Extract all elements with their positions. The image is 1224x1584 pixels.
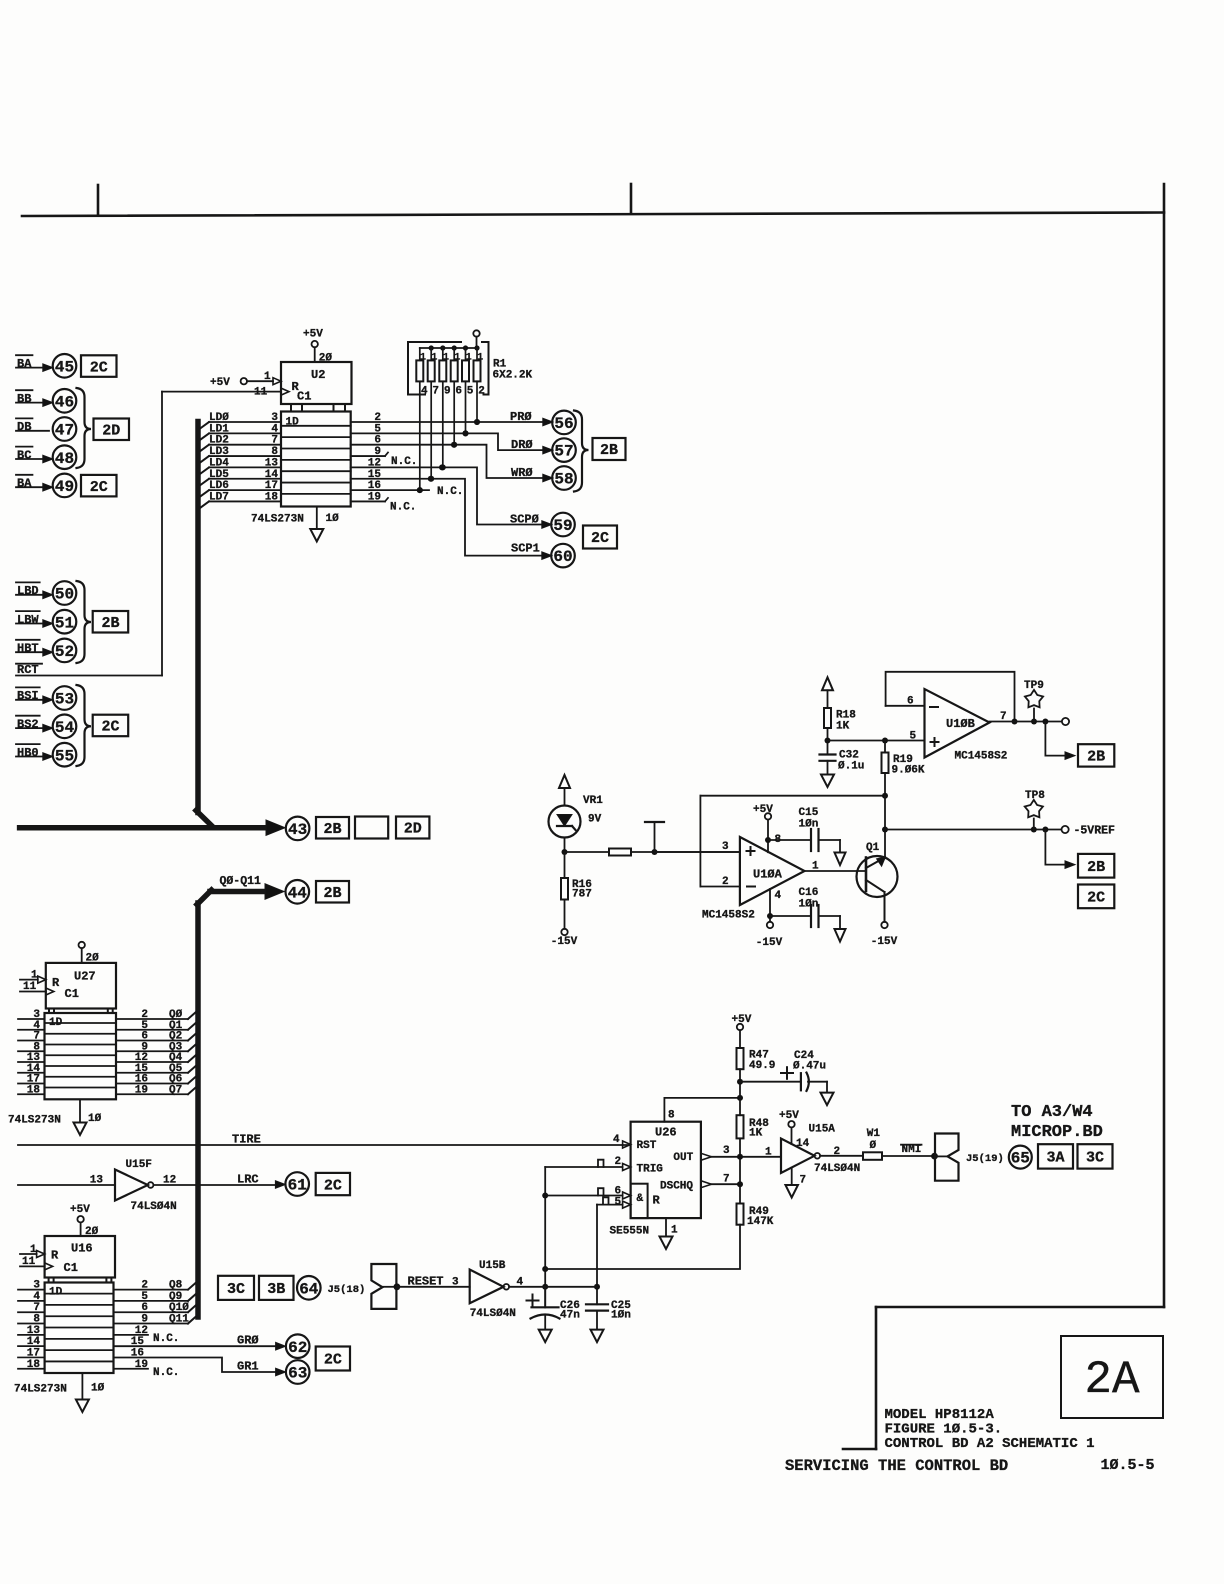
- svg-text:WRØ: WRØ: [511, 466, 533, 480]
- bus horizontal 43: [20, 825, 267, 831]
- svg-text:J5(18): J5(18): [328, 1284, 366, 1296]
- svg-text:16: 16: [131, 1348, 144, 1360]
- wire NMI: [882, 1155, 935, 1157]
- destination box 2B for 56-58: [593, 438, 626, 460]
- R1 bracket right: [482, 342, 489, 395]
- svg-text:Q7: Q7: [169, 1084, 182, 1096]
- U16 pin 1 input: [20, 1253, 37, 1255]
- svg-text:1: 1: [812, 861, 819, 873]
- svg-text:+5V: +5V: [210, 377, 230, 389]
- terminal 54: [53, 715, 77, 739]
- svg-text:17: 17: [27, 1347, 40, 1359]
- node BA input 49: [16, 474, 32, 476]
- capacitor C16 10n: [767, 913, 773, 919]
- wire LRC: [153, 1184, 275, 1186]
- svg-text:7: 7: [271, 435, 278, 447]
- svg-text:NMI: NMI: [902, 1144, 922, 1156]
- terminal 53: [53, 686, 77, 710]
- terminal 60: [551, 544, 575, 568]
- svg-text:OUT: OUT: [673, 1152, 693, 1164]
- svg-text:Ø: Ø: [870, 1140, 877, 1152]
- svg-text:RST: RST: [637, 1140, 657, 1152]
- svg-text:18: 18: [265, 491, 279, 503]
- svg-text:58: 58: [554, 471, 573, 489]
- node T junction: [652, 849, 658, 855]
- bus vertical lower: [195, 903, 201, 1317]
- U26 pin4 wedge: [623, 1141, 631, 1148]
- svg-text:2B: 2B: [323, 885, 341, 902]
- svg-text:SERVICING THE CONTROL BD: SERVICING THE CONTROL BD: [785, 1457, 1008, 1475]
- svg-text:Ø.47u: Ø.47u: [793, 1061, 826, 1073]
- svg-text:Q1: Q1: [866, 842, 880, 854]
- svg-text:13: 13: [27, 1325, 41, 1337]
- R1 leg pin 6: [453, 381, 455, 444]
- destination box 3C: [1078, 1144, 1113, 1168]
- svg-text:17: 17: [265, 480, 278, 492]
- svg-text:1Ø: 1Ø: [91, 1383, 105, 1395]
- supply arrow VR1: [559, 775, 570, 788]
- border top rule: [22, 213, 1164, 217]
- resistor R16 787: [564, 852, 566, 878]
- svg-text:5: 5: [467, 386, 474, 398]
- terminal 44: [286, 880, 310, 904]
- node BSI input 53: [16, 686, 40, 688]
- node RCT: [16, 663, 42, 665]
- inverter U15F: [115, 1170, 148, 1201]
- svg-text:49.9: 49.9: [749, 1060, 775, 1072]
- svg-text:3: 3: [271, 412, 278, 424]
- R1 rail junctions: [429, 345, 434, 350]
- svg-text:1Ø.5-5: 1Ø.5-5: [1101, 1457, 1155, 1474]
- wire SCP1 net: [351, 479, 552, 556]
- svg-text:11: 11: [254, 387, 268, 399]
- svg-text:4: 4: [421, 386, 428, 398]
- svg-text:4: 4: [271, 423, 278, 435]
- svg-text:LBD: LBD: [17, 584, 39, 598]
- node BA input 45: [16, 354, 32, 356]
- svg-text:BB: BB: [17, 392, 31, 406]
- U2 pin 19 N.C. stub: [351, 500, 385, 502]
- terminal 61: [285, 1172, 309, 1196]
- svg-text:J5(19): J5(19): [966, 1153, 1004, 1165]
- svg-text:U15A: U15A: [809, 1124, 836, 1136]
- svg-text:C1: C1: [65, 987, 79, 1001]
- svg-text:U1ØA: U1ØA: [753, 868, 783, 882]
- svg-text:47: 47: [55, 422, 74, 440]
- svg-text:15: 15: [131, 1336, 145, 1348]
- resistor R47 49.9: [737, 1048, 744, 1069]
- wire U10A feedback: [700, 795, 885, 797]
- terminal 62: [286, 1334, 310, 1358]
- svg-text:6X2.2K: 6X2.2K: [493, 370, 533, 382]
- svg-text:1Øn: 1Øn: [611, 1310, 631, 1322]
- U16 box tabs: [48, 1278, 50, 1283]
- svg-text:13: 13: [90, 1175, 104, 1187]
- U27 box tabs: [48, 1009, 50, 1014]
- svg-text:74LSØ4N: 74LSØ4N: [470, 1308, 516, 1320]
- svg-text:TIRE: TIRE: [232, 1133, 261, 1147]
- wire U10A pin3: [655, 851, 740, 853]
- destination box 2B for 51: [93, 611, 129, 633]
- svg-text:7: 7: [800, 1175, 807, 1187]
- border right rule: [1163, 184, 1166, 1307]
- svg-text:74LS273N: 74LS273N: [251, 514, 304, 526]
- terminal 59: [551, 513, 575, 537]
- svg-text:3: 3: [33, 1280, 40, 1292]
- wire RESET: [397, 1286, 470, 1288]
- svg-text:BA: BA: [17, 357, 32, 371]
- wire U27 row 4: [18, 1061, 45, 1063]
- power -15V R16: [561, 929, 567, 935]
- terminal 50: [53, 581, 77, 605]
- svg-text:2D: 2D: [404, 821, 422, 838]
- U26 pin5 input: [623, 1201, 631, 1208]
- svg-text:3: 3: [723, 1145, 730, 1157]
- terminal 65: [1009, 1146, 1032, 1169]
- destination box 2C for 61: [316, 1173, 350, 1195]
- svg-text:U27: U27: [74, 970, 96, 984]
- svg-text:N.C.: N.C.: [153, 1367, 179, 1379]
- resistor pack R1 6X2.2K: [419, 348, 421, 360]
- op U2 control box: [281, 362, 352, 404]
- wire SCP0 net: [351, 467, 552, 524]
- svg-text:RESET: RESET: [408, 1274, 444, 1288]
- resistor R19 9.06K: [884, 741, 886, 753]
- empty box for 43: [355, 817, 388, 839]
- resistor series unlabeled: [609, 849, 631, 856]
- svg-text:MC1458S2: MC1458S2: [702, 910, 755, 922]
- node HB0 input 55: [16, 743, 40, 745]
- svg-text:13: 13: [265, 457, 279, 469]
- svg-text:HB0: HB0: [17, 746, 39, 760]
- R1 leg pin 7: [430, 381, 432, 478]
- svg-text:1Øn: 1Øn: [799, 819, 819, 831]
- destination box 2C for 59-60: [583, 526, 617, 549]
- svg-text:52: 52: [55, 643, 74, 661]
- svg-text:LD7: LD7: [209, 491, 229, 503]
- svg-text:DRØ: DRØ: [511, 438, 533, 452]
- svg-text:18: 18: [27, 1359, 41, 1371]
- svg-text:2B: 2B: [600, 442, 618, 459]
- svg-text:1Øn: 1Øn: [799, 899, 819, 911]
- svg-text:6: 6: [141, 1302, 148, 1314]
- svg-text:74LSØ4N: 74LSØ4N: [814, 1163, 860, 1175]
- svg-text:N.C.: N.C.: [153, 1333, 179, 1345]
- destination box 2D for 47: [94, 419, 130, 441]
- U2 cell dividers: [281, 425, 351, 427]
- svg-text:12: 12: [163, 1175, 176, 1187]
- wire U16 row 1: [18, 1300, 45, 1302]
- svg-text:1: 1: [671, 1225, 678, 1237]
- svg-text:3: 3: [452, 1276, 459, 1288]
- wire U15F input: [18, 1184, 115, 1186]
- op U16 control box: [45, 1236, 115, 1278]
- svg-text:HBT: HBT: [17, 642, 39, 656]
- wire LD3 into U2: [198, 456, 209, 464]
- capacitor C24 0.47u: [737, 1079, 743, 1085]
- U26 pin3 output: [701, 1153, 712, 1160]
- svg-text:59: 59: [553, 517, 572, 535]
- wire GR0: [114, 1345, 276, 1347]
- wire U15B out: [509, 1286, 597, 1288]
- wire U27 row 5: [18, 1072, 45, 1074]
- node LBD input 50: [16, 581, 40, 583]
- terminal 64: [297, 1276, 321, 1300]
- wire GR1: [114, 1358, 276, 1373]
- svg-text:LD2: LD2: [209, 435, 229, 447]
- svg-text:LD6: LD6: [209, 480, 229, 492]
- terminal 46: [53, 389, 77, 413]
- svg-text:U15F: U15F: [126, 1159, 152, 1171]
- svg-text:1: 1: [454, 352, 460, 363]
- destination box 2D for 43: [396, 817, 429, 839]
- U2 box tabs: [290, 404, 292, 412]
- wire U27 row 2: [18, 1040, 45, 1042]
- U2 main box: [281, 412, 351, 507]
- svg-text:TO A3/W4: TO A3/W4: [1011, 1103, 1093, 1122]
- svg-text:46: 46: [55, 393, 74, 411]
- svg-text:-15V: -15V: [756, 937, 783, 949]
- wire U16 row 7: [18, 1368, 45, 1370]
- svg-text:R: R: [52, 976, 60, 990]
- wire LD5 into U2: [198, 479, 209, 487]
- wire LD2 into U2: [198, 445, 209, 453]
- power +5V U27: [79, 942, 85, 948]
- svg-text:+5V: +5V: [779, 1110, 799, 1122]
- node BC input 48: [16, 446, 32, 448]
- ground U16 pin 10: [81, 1375, 83, 1400]
- svg-text:47n: 47n: [560, 1310, 580, 1322]
- svg-text:50: 50: [55, 586, 74, 604]
- R1 bracket left: [408, 342, 461, 395]
- destination box 2C for 62-63: [316, 1347, 350, 1371]
- capacitor C15 10n: [765, 837, 771, 843]
- svg-text:BS2: BS2: [17, 718, 39, 732]
- svg-text:PRØ: PRØ: [510, 410, 532, 424]
- destination box 2C for 49: [81, 475, 117, 497]
- svg-text:74LSØ4N: 74LSØ4N: [131, 1201, 177, 1213]
- wire U10B pin7 output: [990, 721, 1061, 723]
- svg-text:3C: 3C: [1086, 1150, 1104, 1167]
- svg-text:6: 6: [907, 696, 914, 708]
- U16 pin 11 clock: [20, 1265, 45, 1267]
- svg-text:53: 53: [55, 691, 74, 709]
- supply arrow R18: [822, 677, 833, 690]
- svg-text:8: 8: [33, 1314, 40, 1326]
- wire U16 row 0: [18, 1289, 45, 1291]
- svg-text:CONTROL BD A2 SCHEMATIC 1: CONTROL BD A2 SCHEMATIC 1: [885, 1436, 1095, 1452]
- svg-text:4: 4: [33, 1291, 40, 1303]
- wire U27 row 1: [18, 1029, 45, 1031]
- svg-text:60: 60: [553, 548, 572, 566]
- capacitor C26 47n: [544, 1287, 546, 1308]
- border tick middle: [630, 184, 633, 214]
- svg-text:1: 1: [466, 352, 472, 363]
- svg-text:1: 1: [420, 352, 426, 363]
- wire U16 row 5: [18, 1345, 45, 1347]
- svg-text:-15V: -15V: [551, 936, 578, 948]
- svg-text:64: 64: [299, 1280, 319, 1298]
- svg-text:48: 48: [55, 450, 74, 468]
- svg-text:U26: U26: [655, 1126, 677, 1140]
- svg-text:BA: BA: [17, 477, 32, 491]
- power +5V feed R1: [473, 330, 479, 336]
- resistor R49 147K: [737, 1204, 744, 1225]
- border title step: [876, 1306, 1164, 1309]
- wire LD1 into U2: [198, 433, 209, 441]
- svg-text:+5V: +5V: [303, 328, 323, 340]
- svg-text:SCP1: SCP1: [511, 542, 540, 556]
- svg-text:9: 9: [141, 1314, 148, 1326]
- jumper W1: [863, 1152, 882, 1160]
- svg-text:6: 6: [455, 386, 462, 398]
- U16 pin 12 N.C.: [114, 1334, 149, 1336]
- R1 leg pin 9: [442, 381, 444, 467]
- U27 cell dividers: [45, 1022, 117, 1024]
- svg-text:1: 1: [443, 352, 449, 363]
- svg-text:45: 45: [55, 358, 74, 376]
- svg-text:14: 14: [265, 469, 279, 481]
- svg-text:14: 14: [27, 1336, 41, 1348]
- svg-text:55: 55: [55, 747, 74, 765]
- terminal 49: [53, 474, 77, 498]
- op-amp U10B: [925, 689, 990, 758]
- svg-text:74LS273N: 74LS273N: [14, 1384, 67, 1396]
- svg-text:7: 7: [1000, 711, 1007, 723]
- svg-text:56: 56: [554, 415, 573, 433]
- svg-text:SE555N: SE555N: [610, 1226, 650, 1238]
- R1 common rail: [420, 347, 477, 349]
- svg-text:Q1Ø: Q1Ø: [169, 1302, 189, 1314]
- svg-text:3C: 3C: [227, 1281, 245, 1298]
- destination box 2B for 44: [316, 881, 349, 903]
- sheet box 2A: [1061, 1336, 1163, 1418]
- svg-text:9V: 9V: [588, 814, 602, 826]
- svg-text:LBW: LBW: [17, 613, 39, 627]
- wire LD6 into U2: [198, 490, 209, 498]
- svg-text:49: 49: [55, 478, 74, 496]
- svg-text:U1ØB: U1ØB: [946, 717, 975, 731]
- svg-text:787: 787: [572, 889, 592, 901]
- svg-text:1Ø: 1Ø: [326, 513, 340, 525]
- svg-text:LRC: LRC: [237, 1173, 259, 1187]
- terminal 51: [53, 610, 77, 634]
- svg-text:51: 51: [55, 614, 74, 632]
- svg-text:W1: W1: [867, 1128, 881, 1140]
- svg-text:65: 65: [1011, 1150, 1030, 1168]
- terminal 58: [552, 466, 576, 490]
- svg-text:1K: 1K: [836, 721, 850, 733]
- svg-text:VR1: VR1: [583, 795, 603, 807]
- svg-text:C1: C1: [297, 390, 311, 404]
- svg-text:2: 2: [478, 386, 485, 398]
- svg-text:Q8: Q8: [169, 1280, 183, 1292]
- ground U26 pin1: [665, 1218, 667, 1236]
- inverter U15A: [781, 1139, 815, 1174]
- terminal 56: [552, 411, 576, 435]
- node LBW input 51: [16, 610, 40, 612]
- svg-text:C1: C1: [64, 1261, 78, 1275]
- wire WR0 net: [351, 445, 553, 478]
- svg-text:8: 8: [271, 446, 278, 458]
- svg-text:R: R: [653, 1193, 661, 1207]
- svg-text:1D: 1D: [49, 1287, 63, 1299]
- svg-text:2C: 2C: [591, 530, 609, 547]
- wire U27 row 7: [18, 1093, 45, 1095]
- wire LD7 into U2: [198, 501, 209, 509]
- svg-text:74LS273N: 74LS273N: [8, 1115, 61, 1127]
- wire -5VREF: [885, 829, 1061, 831]
- power U10A pin4 -15V: [769, 889, 771, 922]
- border tick left: [97, 185, 100, 216]
- svg-text:Q9: Q9: [169, 1291, 182, 1303]
- svg-text:MICROP.BD: MICROP.BD: [1011, 1123, 1103, 1142]
- U16 pin 19 N.C.: [114, 1368, 149, 1370]
- svg-text:5: 5: [141, 1291, 148, 1303]
- terminal 43: [286, 817, 310, 841]
- destination box 2C right mid: [1078, 885, 1114, 909]
- svg-text:LD1: LD1: [209, 423, 229, 435]
- svg-text:TP8: TP8: [1025, 790, 1045, 802]
- svg-text:2C: 2C: [101, 719, 119, 736]
- terminal 52: [53, 639, 77, 663]
- zener VR1 9V: [549, 806, 581, 838]
- svg-text:5: 5: [615, 1196, 622, 1208]
- svg-text:U16: U16: [71, 1242, 93, 1256]
- brace 50-52: [77, 581, 92, 663]
- svg-text:SCPØ: SCPØ: [510, 513, 539, 527]
- svg-text:LD4: LD4: [209, 457, 229, 469]
- node HBT input 52: [16, 639, 40, 641]
- terminal 55: [53, 743, 77, 767]
- svg-text:19: 19: [135, 1359, 148, 1371]
- terminal 47: [53, 417, 77, 441]
- wire to 2B from U10B: [1042, 719, 1048, 725]
- svg-text:11: 11: [23, 981, 37, 993]
- svg-text:2C: 2C: [324, 1177, 342, 1194]
- svg-text:9.Ø6K: 9.Ø6K: [892, 765, 925, 777]
- svg-text:19: 19: [135, 1084, 148, 1096]
- op U27 control box: [46, 963, 116, 1009]
- U2 pin 16 N.C. stub: [351, 489, 429, 491]
- wire U27 row 0: [18, 1018, 45, 1020]
- svg-text:3A: 3A: [1046, 1150, 1064, 1167]
- terminal 45: [53, 354, 77, 378]
- destination box 2C for 45: [81, 355, 117, 377]
- svg-text:-15V: -15V: [871, 936, 898, 948]
- wire pin5 vertical: [596, 1205, 598, 1305]
- U26 pin6 input: [623, 1192, 631, 1199]
- brace 46-48: [77, 388, 92, 468]
- wire R49 return: [545, 1225, 740, 1269]
- svg-text:57: 57: [554, 443, 573, 461]
- svg-text:U2: U2: [311, 368, 325, 382]
- svg-text:5: 5: [910, 731, 917, 743]
- svg-text:2C: 2C: [90, 479, 108, 496]
- svg-text:DB: DB: [17, 420, 31, 434]
- svg-text:9: 9: [444, 386, 451, 398]
- wire VR1 node: [564, 838, 566, 853]
- wire U10B pin5: [828, 740, 925, 742]
- svg-text:1D: 1D: [286, 417, 300, 429]
- U27 main box: [45, 1013, 117, 1099]
- svg-text:2D: 2D: [102, 422, 120, 439]
- svg-text:BSI: BSI: [17, 689, 39, 703]
- wire TIRE: [18, 1144, 631, 1146]
- brace 53-55: [77, 685, 92, 766]
- svg-text:-5VREF: -5VREF: [1074, 825, 1116, 838]
- svg-text:&: &: [637, 1193, 644, 1205]
